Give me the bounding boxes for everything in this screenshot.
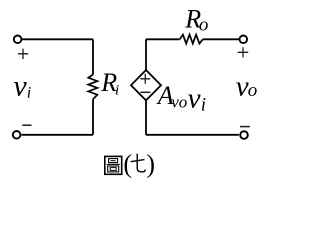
wire: output top horizontal left of Ro <box>146 38 180 40</box>
label: minus sign at input bottom terminal <box>22 124 31 126</box>
node: output bottom terminal circle <box>240 131 248 139</box>
svg-text:o: o <box>248 80 258 101</box>
node: input bottom terminal circle <box>13 131 21 139</box>
svg-text:): ) <box>146 149 155 178</box>
svg-text:vo: vo <box>171 92 187 111</box>
resistor R2 (Ro) zigzag <box>180 35 203 44</box>
resistor R1 (Ri) zigzag <box>88 75 97 100</box>
wire: output left vertical upper <box>145 39 147 70</box>
svg-text:v: v <box>188 82 201 114</box>
svg-text:i: i <box>201 95 206 116</box>
svg-text:o: o <box>199 15 209 36</box>
wire: input right vertical upper <box>92 39 94 74</box>
svg-text:v: v <box>13 70 27 103</box>
label: minus sign at output bottom terminal <box>240 126 250 128</box>
wire: output bottom horizontal <box>146 134 239 136</box>
node: output top terminal circle <box>240 36 248 44</box>
wire: output left vertical lower <box>145 100 147 134</box>
wire: output top horizontal right of Ro <box>203 38 240 40</box>
dependent source E1 diamond <box>131 70 161 100</box>
label: plus sign at input top terminal <box>18 49 28 59</box>
svg-text:i: i <box>115 82 119 98</box>
wire: input top horizontal <box>22 38 94 40</box>
svg-text:(: ( <box>123 149 132 178</box>
wire: input right vertical lower <box>92 99 94 135</box>
label: plus sign at output top terminal <box>238 47 248 57</box>
caption glyph seven (七) drawn as strokes <box>131 154 146 172</box>
svg-text:i: i <box>27 84 31 101</box>
caption figure number: glyph tu (圖) drawn as strokes <box>105 156 122 174</box>
label: plus sign inside diamond <box>140 74 150 84</box>
wire: input bottom horizontal <box>22 134 94 136</box>
node: input top terminal circle <box>14 36 22 44</box>
label: minus sign inside diamond <box>140 91 150 93</box>
